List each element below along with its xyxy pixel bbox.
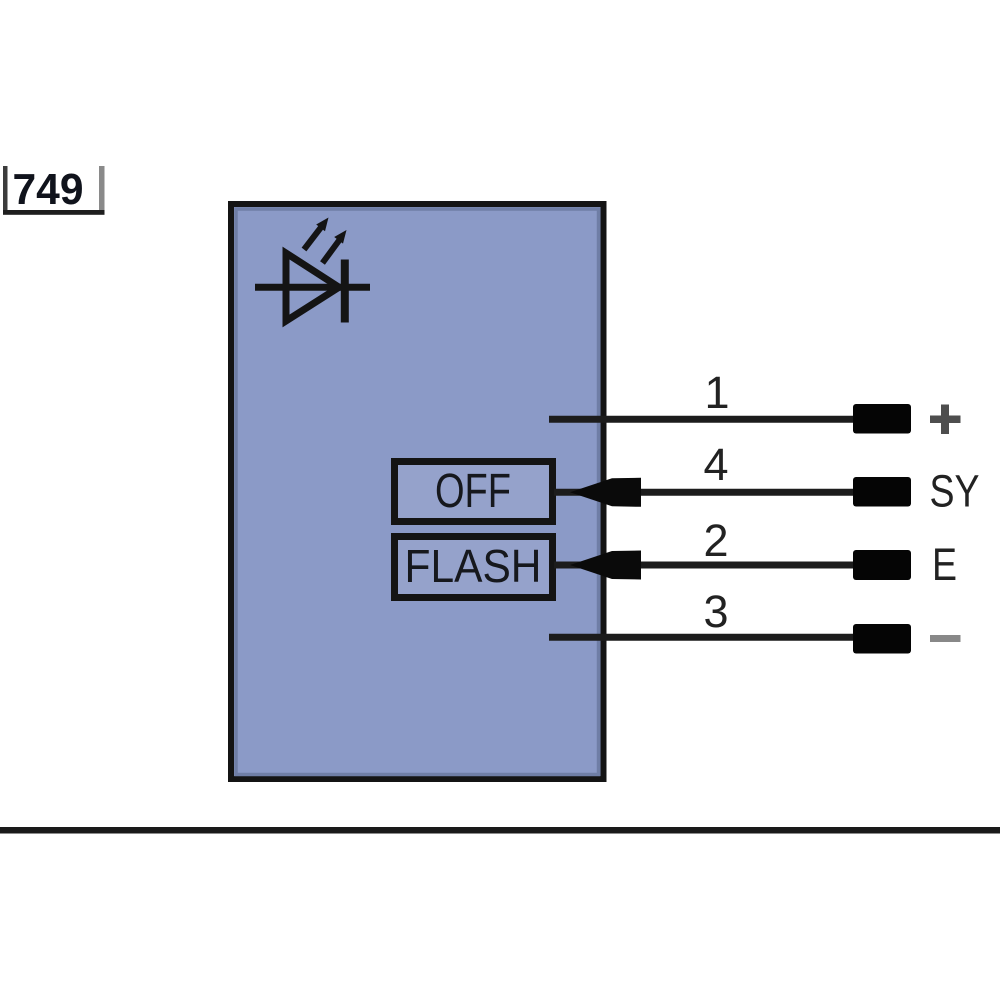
LED module body — [231, 204, 604, 779]
svg-text:OFF: OFF — [435, 465, 511, 518]
function box OFF — [395, 462, 553, 522]
LED light arrow 1 — [304, 218, 329, 250]
LED D1 axis wire — [255, 284, 370, 291]
label - (minus) — [930, 635, 961, 642]
figure number frame 749 — [3, 165, 105, 215]
terminal pin 4 — [853, 477, 911, 507]
terminal pin 1 — [853, 404, 911, 434]
LED D1 triangle — [286, 253, 339, 321]
LED D1 cathode bar — [341, 260, 349, 323]
function box FLASH — [395, 537, 553, 598]
svg-text:3: 3 — [703, 586, 728, 637]
wire pin 3 — [549, 634, 853, 641]
wire pin 2 — [554, 562, 853, 569]
svg-text:SY: SY — [930, 466, 980, 517]
svg-text:FLASH: FLASH — [405, 540, 542, 592]
terminal pin 3 — [853, 624, 911, 654]
svg-text:E: E — [932, 539, 957, 590]
svg-text:1: 1 — [704, 367, 729, 418]
wire pin 4 — [554, 489, 853, 496]
wire pin 1 — [549, 416, 853, 423]
svg-text:4: 4 — [703, 439, 728, 490]
bottom divider line — [0, 827, 1000, 834]
svg-text:2: 2 — [703, 515, 728, 566]
LED light arrow 2 — [323, 230, 347, 263]
label + (plus) — [930, 405, 961, 435]
svg-text:749: 749 — [13, 165, 84, 214]
terminal pin 2 — [853, 550, 911, 580]
arrowhead into FLASH — [570, 551, 641, 580]
arrowhead into OFF — [570, 478, 641, 507]
